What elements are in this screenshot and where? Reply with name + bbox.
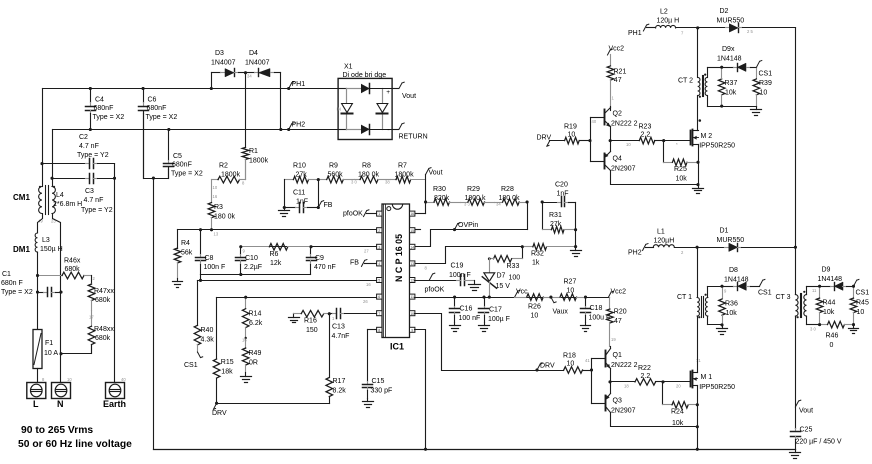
svg-text:D8: D8 (729, 267, 738, 274)
svg-text:R46: R46 (826, 333, 839, 340)
diode D2 (698, 8, 796, 34)
resistor R9 (319, 163, 355, 183)
svg-text:1nF: 1nF (557, 191, 569, 198)
wire C11 right leg (317, 180, 320, 210)
svg-text:R3: R3 (214, 204, 223, 211)
node Q1-Q3 emitters (609, 380, 612, 383)
transistor Q2 (605, 107, 638, 141)
capacitor C4 (86, 87, 125, 131)
node X1 minus (387, 125, 390, 134)
svg-text:2*6.8m H: 2*6.8m H (53, 201, 82, 208)
svg-text:180 0k: 180 0k (499, 195, 521, 202)
resistor R36 (719, 287, 738, 325)
svg-text:R20: R20 (614, 309, 627, 316)
node PH1 net label upper (628, 24, 656, 37)
svg-text:12k: 12k (270, 260, 282, 267)
svg-text:19: 19 (611, 337, 616, 342)
resistor R23 (611, 124, 664, 148)
svg-text:M 2: M 2 (701, 133, 713, 140)
svg-text:680nF: 680nF (172, 162, 192, 169)
svg-text:3 0: 3 0 (351, 180, 357, 185)
svg-text:100n F: 100n F (449, 272, 471, 279)
text line voltage note (18, 425, 132, 450)
svg-text:56k: 56k (181, 250, 193, 257)
capacitor C1 (1, 271, 61, 297)
node top row B (541, 201, 544, 204)
svg-text:1: 1 (378, 212, 380, 216)
ground CT1 loop (717, 325, 728, 335)
svg-text:R46x: R46x (64, 258, 81, 265)
svg-text:4.7nF: 4.7nF (332, 333, 350, 340)
node DRV upper (537, 135, 552, 147)
svg-text:680k: 680k (95, 335, 111, 342)
wire gate M2 (664, 141, 691, 148)
svg-text:CS1: CS1 (759, 71, 773, 78)
wire C20 right down (575, 203, 577, 247)
svg-text:1k: 1k (532, 260, 540, 267)
wire CT2 primary to M2 drain (697, 96, 699, 131)
ground C18 (581, 323, 591, 332)
wire Vout bus vertical (794, 28, 797, 295)
svg-text:R36: R36 (725, 301, 738, 308)
svg-text:2.2: 2.2 (641, 373, 651, 380)
resistor R46x (38, 258, 92, 279)
svg-text:C3: C3 (85, 188, 94, 195)
diode D8 (723, 267, 760, 291)
wire M2 source down (698, 145, 700, 185)
svg-text:1800 k: 1800 k (465, 195, 487, 202)
diode X1 right (377, 104, 388, 114)
svg-text:R28: R28 (501, 186, 514, 193)
svg-text:R32: R32 (531, 251, 544, 258)
svg-text:4.7 nF: 4.7 nF (84, 197, 104, 204)
svg-text:1N4148: 1N4148 (717, 56, 742, 63)
diode X1 top (361, 84, 393, 94)
wire Q3 base row (592, 403, 606, 405)
svg-text:DRV: DRV (540, 363, 555, 370)
wire D3 anode to rail A (210, 73, 213, 91)
svg-text:27k: 27k (550, 221, 562, 228)
node X1 plus (386, 89, 390, 96)
wire bus below CT3 (795, 317, 797, 429)
svg-text:0: 0 (830, 342, 834, 349)
svg-text:100n F: 100n F (204, 264, 226, 271)
svg-text:7: 7 (378, 312, 380, 316)
svg-text:2N2907: 2N2907 (611, 408, 636, 415)
resistor R2 (212, 163, 246, 191)
svg-text:R15: R15 (221, 359, 234, 366)
node top row A (526, 201, 529, 204)
svg-text:C5: C5 (173, 153, 182, 160)
svg-text:CT 1: CT 1 (677, 294, 692, 301)
node CS1 net label lower left (184, 352, 203, 369)
node pfoOK pin1 label (343, 210, 377, 218)
svg-text:MUR550: MUR550 (717, 18, 745, 25)
svg-text:C16: C16 (460, 306, 473, 313)
svg-text:18: 18 (624, 384, 629, 389)
svg-text:C4: C4 (95, 97, 104, 104)
svg-text:R39: R39 (759, 80, 772, 87)
wire FB divider row (285, 179, 294, 181)
wire CT1 loop (708, 285, 728, 327)
node R10-R9 (317, 178, 320, 181)
svg-text:680nF: 680nF (147, 105, 167, 112)
wire pin10 DRV (415, 314, 564, 371)
wire N line top (52, 130, 54, 187)
node R32 left (521, 245, 524, 248)
wire pin12 pfoOK row (415, 273, 457, 293)
svg-text:1N4148: 1N4148 (818, 276, 843, 283)
wire Q4 base row (591, 161, 605, 163)
svg-text:680nF: 680nF (94, 105, 114, 112)
node Vaux net label (551, 297, 569, 315)
svg-text:820k: 820k (434, 195, 450, 202)
svg-text:2.2µF: 2.2µF (244, 264, 262, 271)
ground CT2 loop (751, 107, 762, 116)
wire R40 branch (197, 281, 199, 326)
IC IC1 NCP1605 controller (377, 204, 415, 352)
svg-text:10k: 10k (725, 90, 737, 97)
svg-text:R9: R9 (329, 163, 338, 170)
node R16-C13-R17 (328, 312, 335, 321)
resistor R29 (461, 186, 502, 207)
svg-text:Vaux: Vaux (553, 309, 569, 316)
svg-text:180 0k: 180 0k (214, 214, 236, 221)
svg-text:15 V: 15 V (496, 283, 511, 290)
svg-text:10: 10 (857, 309, 865, 316)
node C2-L junction (41, 162, 44, 165)
terminal Earth (103, 377, 126, 409)
svg-text:10: 10 (567, 361, 575, 368)
node R23-R25-gate (662, 139, 665, 142)
svg-text:R45: R45 (856, 300, 869, 307)
svg-text:10k: 10k (676, 176, 688, 183)
node C5-C6 junction (152, 177, 155, 180)
svg-text:C19: C19 (451, 263, 464, 270)
svg-text:90 to 265 Vrms: 90 to 265 Vrms (21, 425, 93, 436)
svg-text:47: 47 (614, 318, 622, 325)
svg-text:Vout: Vout (429, 170, 443, 177)
resistor R49 (242, 348, 261, 373)
svg-text:50 or 60 Hz line voltage: 50 or 60 Hz line voltage (18, 439, 132, 450)
resistor R6 (241, 244, 311, 268)
svg-text:IN: IN (337, 107, 342, 112)
wire R1 bottom (245, 160, 247, 180)
ground C16 (450, 323, 461, 332)
svg-text:6.2k: 6.2k (249, 320, 263, 327)
resistor R44 (816, 287, 835, 325)
wire row B to R31 (542, 203, 544, 230)
transistor Q4 (604, 141, 635, 173)
svg-text:14: 14 (410, 245, 414, 249)
svg-text:CS1: CS1 (856, 290, 870, 297)
svg-text:10: 10 (567, 288, 575, 295)
svg-text:CT 3: CT 3 (776, 294, 791, 301)
resistor R22 (611, 365, 663, 389)
svg-text:R31: R31 (549, 212, 562, 219)
svg-text:CS1: CS1 (184, 362, 198, 369)
wire DRV row lower-left (215, 402, 329, 405)
svg-text:L4: L4 (56, 192, 64, 199)
diode X1 bottom (361, 125, 393, 135)
diode D9x (717, 46, 757, 72)
svg-text:11: 11 (812, 288, 817, 293)
resistor R26 (515, 294, 551, 320)
svg-text:0R: 0R (249, 360, 258, 367)
svg-text:C17: C17 (489, 307, 502, 314)
svg-text:100: 100 (509, 275, 521, 282)
svg-text:10: 10 (410, 312, 414, 316)
svg-text:R30: R30 (433, 186, 446, 193)
svg-text:4: 4 (378, 262, 380, 266)
resistor R48xx (88, 311, 114, 354)
svg-text:D3: D3 (215, 50, 224, 57)
svg-text:3 0: 3 0 (810, 327, 816, 332)
svg-text:pfoOK: pfoOK (425, 287, 445, 294)
svg-text:Di ode bri dge: Di ode bri dge (343, 72, 387, 79)
svg-text:8: 8 (378, 328, 380, 332)
node CS1 upper (756, 61, 772, 78)
svg-text:Type = X2: Type = X2 (1, 289, 33, 296)
diode X1 left (337, 104, 353, 114)
resistor R32 (523, 244, 576, 267)
wire rail A (PH1 input rail) (43, 88, 339, 90)
svg-text:R44: R44 (823, 300, 836, 307)
wire M1 source to bus (696, 386, 699, 451)
svg-text:38: 38 (385, 180, 390, 185)
wire pin9 to bus (415, 330, 428, 451)
wire Vout vertical (424, 175, 427, 214)
capacitor C6 (139, 87, 178, 179)
ground output (790, 450, 801, 459)
node D9 CS1 (852, 279, 869, 296)
svg-text:26: 26 (363, 299, 368, 304)
svg-text:680k: 680k (65, 266, 81, 273)
svg-text:R24: R24 (671, 409, 684, 416)
diode bridge X1 body (338, 64, 392, 140)
transistor Q3 (606, 382, 636, 415)
wire L line top (42, 89, 44, 187)
svg-text:R33: R33 (507, 263, 520, 270)
resistor R17 (326, 314, 346, 404)
svg-text:Vout: Vout (402, 93, 416, 100)
resistor R33 (490, 256, 523, 271)
svg-text:M 1: M 1 (701, 374, 713, 381)
wire Q3 collector to source (611, 413, 699, 429)
svg-text:CT 2: CT 2 (678, 78, 693, 85)
node RETURN net label X1 (393, 123, 428, 141)
node PH2 net label lower (628, 244, 654, 257)
capacitor C8 (196, 230, 226, 275)
svg-text:R37: R37 (725, 80, 738, 87)
resistor R37 (718, 68, 737, 107)
svg-text:F1: F1 (45, 340, 53, 347)
node FB pin4 label (350, 260, 377, 267)
svg-text:150µ H: 150µ H (40, 246, 63, 253)
svg-text:10k: 10k (726, 310, 738, 317)
wire return loop left (153, 179, 155, 450)
svg-text:CM1: CM1 (13, 193, 30, 202)
wire pin16 stub (415, 213, 426, 215)
wire rail B (PH2 input rail) (53, 129, 339, 131)
diode D4 (245, 50, 281, 77)
svg-text:680k: 680k (95, 297, 111, 304)
capacitor C18 (581, 298, 611, 323)
svg-text:PH1: PH1 (628, 30, 642, 37)
svg-text:R27: R27 (564, 279, 577, 286)
wire CT2 loop (708, 66, 757, 108)
resistor R31 (543, 212, 576, 233)
svg-text:+: + (386, 89, 390, 96)
capacitor C13 (330, 309, 377, 341)
svg-text:9: 9 (411, 328, 413, 332)
wire compensation bottom (199, 273, 311, 282)
svg-text:Type = Y2: Type = Y2 (77, 152, 109, 159)
node DRV net label inner (212, 403, 227, 417)
node Vout net label at R7 (426, 168, 443, 177)
ground R16 (289, 314, 300, 323)
svg-text:470 nF: 470 nF (314, 264, 336, 271)
node FB net label (318, 201, 332, 209)
wire CT1 primary to M1 drain (697, 317, 699, 373)
svg-text:1800k: 1800k (395, 171, 415, 178)
wire D4 anode to rail B (279, 73, 282, 132)
svg-text:2 5: 2 5 (747, 29, 753, 34)
resistor R20 (607, 298, 627, 347)
svg-text:*: * (676, 142, 678, 147)
capacitor C15 (363, 330, 393, 399)
svg-text:13: 13 (214, 232, 219, 237)
svg-text:16: 16 (242, 338, 247, 343)
svg-text:R19: R19 (564, 124, 577, 131)
svg-text:R16: R16 (304, 318, 317, 325)
svg-text:R10: R10 (293, 163, 306, 170)
svg-text:10: 10 (568, 132, 576, 139)
svg-text:Q1: Q1 (613, 352, 622, 359)
svg-text:DRV: DRV (212, 410, 227, 417)
svg-text:R17: R17 (333, 378, 346, 385)
resistor R10 (293, 163, 319, 183)
node R33-D7 (488, 257, 491, 260)
svg-text:3: 3 (378, 245, 380, 249)
wire C6 bottom to C5 bottom node (144, 111, 169, 179)
svg-text:27: 27 (364, 249, 369, 254)
svg-text:D9: D9 (822, 267, 831, 274)
transistor M2 MOSFET (691, 119, 736, 149)
svg-text:N: N (57, 399, 64, 409)
svg-text:C15: C15 (372, 378, 385, 385)
svg-text:40: 40 (121, 377, 126, 382)
capacitor C11 (285, 190, 319, 213)
node R22-R24-gate (662, 380, 665, 383)
svg-text:R7: R7 (398, 163, 407, 170)
svg-text:1800k: 1800k (221, 171, 241, 178)
svg-text:C13: C13 (332, 324, 345, 331)
svg-text:CS1: CS1 (758, 290, 772, 297)
wire N line mid (53, 214, 63, 383)
svg-text:180 0k: 180 0k (358, 171, 380, 178)
svg-text:X1: X1 (344, 64, 353, 71)
svg-text:R29: R29 (467, 186, 480, 193)
svg-text:Vcc2: Vcc2 (611, 289, 627, 296)
wire C11 left leg (283, 180, 286, 210)
svg-text:Vcc: Vcc (516, 289, 528, 296)
svg-text:10: 10 (760, 90, 768, 97)
svg-text:R21: R21 (614, 69, 627, 76)
resistor R47xx (88, 284, 114, 311)
node L2-D2-drain (696, 26, 699, 29)
svg-text:16: 16 (366, 282, 371, 287)
node R31 right (574, 228, 577, 231)
svg-text:D9x: D9x (722, 46, 735, 53)
wire R46x to R47xx (92, 276, 96, 284)
wire R48xx to N line (61, 345, 92, 354)
svg-text:R47xx: R47xx (94, 288, 114, 295)
svg-text:1N4148: 1N4148 (724, 277, 749, 284)
resistor R40 (194, 325, 214, 352)
capacitor C10 (236, 247, 263, 275)
svg-text:41: 41 (585, 358, 590, 363)
resistor R24 (663, 382, 699, 428)
svg-text:10: 10 (213, 185, 218, 190)
svg-text:27k: 27k (296, 171, 308, 178)
svg-text:Type = X2: Type = X2 (93, 114, 125, 121)
resistor R25 (664, 141, 700, 183)
svg-text:FB: FB (350, 260, 359, 267)
svg-text:15: 15 (410, 229, 414, 233)
svg-text:16: 16 (410, 212, 414, 216)
resistor R15 (213, 298, 233, 404)
svg-text:R23: R23 (639, 124, 652, 131)
svg-text:330 pF: 330 pF (371, 388, 393, 395)
svg-text:R48xx: R48xx (94, 326, 114, 333)
node PH1 net label rail (287, 81, 305, 90)
svg-text:R26: R26 (528, 304, 541, 311)
wire earth line (113, 164, 116, 383)
fuse F1 (33, 330, 58, 383)
svg-text:C25: C25 (800, 427, 813, 434)
capacitor C25 (791, 427, 842, 450)
wire base vertical upper (589, 118, 592, 162)
wire pin2 brownout sense (178, 228, 377, 236)
resistor R18 (563, 353, 592, 374)
svg-text:4.7 nF: 4.7 nF (79, 143, 99, 150)
svg-text:18k: 18k (221, 369, 233, 376)
svg-text:12: 12 (410, 279, 414, 283)
wire M2 drain vertical (697, 28, 699, 78)
terminal N (52, 377, 73, 409)
resistor R28 (495, 186, 528, 205)
wire gate M1 (663, 382, 691, 389)
wire diode node down to R1 (245, 73, 247, 148)
wire pin6 row (217, 296, 377, 304)
node R14-R49 (242, 328, 247, 349)
svg-text:10: 10 (67, 377, 72, 382)
svg-text:L: L (33, 399, 39, 409)
resistor R39 (753, 68, 772, 107)
svg-text:DM1: DM1 (13, 245, 30, 254)
resistor R7 (385, 163, 426, 185)
wire row A to OVP wire (527, 203, 529, 230)
resistor R19 (550, 124, 591, 144)
node Vcc net label (515, 289, 529, 298)
svg-text:R18: R18 (563, 353, 576, 360)
svg-text:1800k: 1800k (249, 158, 269, 165)
node Vcc2 upper (608, 46, 625, 56)
node Vcc2 lower (609, 289, 627, 298)
svg-text:1N4007: 1N4007 (211, 60, 236, 67)
wire Q1 base row (585, 358, 606, 363)
